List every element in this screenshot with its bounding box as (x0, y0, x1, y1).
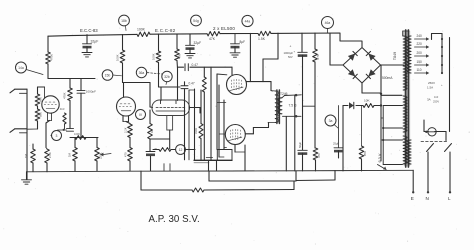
resistor 100K x158 (152, 51, 161, 63)
resistor 10K bias (363, 99, 374, 108)
wire x315 low (315, 160, 317, 171)
callout 44a (242, 15, 253, 26)
chassis mark (378, 165, 387, 170)
resistor splitter tail (159, 148, 171, 152)
ground symbol (22, 172, 32, 184)
svg-text:3: 3 (56, 134, 58, 138)
callout 3a (325, 115, 338, 128)
wire x343 down (342, 106, 344, 171)
svg-text:12: 12 (179, 148, 183, 152)
tube V1 ECC-83 (42, 96, 59, 113)
wire V5 anode (245, 123, 268, 134)
wire x315 mid (314, 62, 316, 148)
label 4b3 (60, 107, 65, 111)
wire x150 to bus (150, 156, 152, 171)
node dot bridge (380, 93, 382, 95)
resistor 47K x177 (175, 49, 182, 61)
wire comb x204 (203, 67, 205, 77)
voltage taps (415, 34, 430, 74)
tube V5 EL500 lower (225, 125, 245, 145)
resistor 470K x70 (63, 88, 73, 101)
resistor 1K x150 (148, 124, 155, 140)
callout 18b (119, 15, 130, 30)
wire feedback (141, 171, 192, 190)
bridge diode SE (366, 69, 375, 78)
capacitor 8uF (231, 34, 246, 49)
wire x81 lower (80, 93, 82, 137)
svg-text:1M: 1M (24, 153, 28, 158)
wire OT sec bot (283, 115, 302, 118)
wire comb x195 (189, 89, 195, 160)
wire V1 plate drop (47, 36, 49, 78)
resistor 100K V2 plate (116, 50, 125, 63)
wire coupling upper (178, 67, 233, 75)
wire V2 drop lower (122, 63, 124, 83)
label ECC-82 (155, 28, 176, 33)
svg-text:E.C.C-83: E.C.C-83 (80, 28, 98, 33)
wire x75 bus (74, 161, 76, 171)
capacitor 25uF bias (333, 142, 343, 153)
svg-text:2 x EL500: 2 x EL500 (213, 26, 235, 31)
wire x158 lower (159, 63, 181, 88)
callout 3 (51, 129, 65, 141)
svg-text:0.47: 0.47 (189, 81, 195, 85)
wire V2 cathode (126, 122, 130, 125)
wire x177 lower (176, 61, 179, 101)
svg-text:47K: 47K (209, 37, 216, 41)
svg-text:220: 220 (417, 42, 423, 46)
wire node x70 (69, 79, 71, 89)
label ECC-83 (80, 28, 98, 33)
svg-text:250V: 250V (433, 100, 439, 104)
svg-text:+: + (441, 83, 443, 87)
wire grid x39 (27, 90, 38, 129)
resistor 68K a (35, 94, 42, 106)
wire ground bus (27, 170, 414, 172)
transformer winding ladder (382, 106, 402, 165)
input jack 2 (10, 129, 27, 133)
resistor 470K V1 plate (46, 52, 54, 64)
capacitor 32uF no2 (186, 41, 202, 50)
svg-text:T849: T849 (393, 52, 397, 60)
tube V1 stem (48, 113, 52, 121)
svg-text:470: 470 (317, 153, 321, 158)
node sec (0, 0, 1, 1)
label 500mA (382, 76, 393, 80)
resistor 470 x130 (123, 148, 132, 162)
svg-text:10K: 10K (364, 99, 370, 103)
svg-text:200: 200 (417, 51, 423, 55)
wire subbus1 (209, 171, 296, 181)
svg-text:54g: 54g (193, 19, 199, 23)
wire x150 grid (150, 83, 153, 108)
svg-text:240: 240 (417, 34, 423, 38)
node dot diode (380, 104, 382, 106)
wire x130 mid (129, 138, 131, 148)
svg-text:2.2K: 2.2K (123, 127, 127, 133)
svg-text:2.2K: 2.2K (48, 152, 52, 158)
wire input shield (26, 89, 28, 179)
callout 46a (322, 17, 334, 33)
svg-text:6.3 V: 6.3 V (378, 153, 382, 162)
transformer OT primary (268, 91, 279, 123)
wire comb x224 (224, 100, 227, 150)
input jack 1 (10, 89, 27, 93)
label T849 (393, 52, 397, 60)
svg-text:100K: 100K (152, 53, 156, 60)
wire x70 lower (69, 101, 71, 129)
fuse (424, 128, 446, 136)
pin tick (206, 157, 212, 159)
resistor x315 upper (313, 49, 320, 62)
callout 54g (191, 15, 202, 26)
node dot (58, 129, 67, 131)
svg-text:50V: 50V (288, 55, 293, 59)
selector rail (432, 34, 444, 75)
capacitor 25uF x150 (146, 147, 157, 156)
wire x302 upper (301, 33, 303, 52)
wire x219 grid rail (219, 85, 225, 157)
svg-text:1K: 1K (150, 129, 154, 133)
svg-text:50µF: 50µF (298, 141, 302, 148)
wire x177 drop (176, 34, 178, 49)
callout 14a (16, 62, 44, 75)
callout 32b (162, 71, 172, 84)
switch blade L (445, 144, 452, 152)
wire 85K bus (361, 159, 363, 171)
svg-text:1.5A: 1.5A (427, 86, 433, 90)
svg-text:36a: 36a (139, 71, 145, 75)
wire V5 below (235, 145, 245, 171)
wire B+ step (263, 33, 278, 81)
wire x75 down (74, 138, 76, 148)
wire bus stubs (164, 164, 170, 171)
capacitor 32uF no1 (83, 40, 99, 49)
wire x150 down (149, 110, 151, 124)
svg-text:1000pF: 1000pF (86, 90, 96, 94)
svg-text:1000µF: 1000µF (284, 51, 294, 55)
wire cap1 lead (86, 35, 88, 44)
wire screen feed (249, 33, 251, 81)
resistor x204 (202, 77, 206, 92)
label 6.3V (378, 153, 382, 162)
transformer OT secondary (278, 98, 282, 114)
wire comb x201 (200, 90, 202, 124)
capacitor 50uF lower (298, 141, 308, 154)
wire strip legs (209, 160, 217, 171)
svg-text:+: + (294, 50, 296, 54)
svg-text:7.5 Ω: 7.5 Ω (289, 104, 297, 108)
wire x302 low (302, 153, 304, 171)
wire comb x217 (217, 74, 227, 150)
label 2xEL500 (213, 26, 235, 31)
wire bridge left (330, 33, 343, 65)
resistor 22K V2 (123, 124, 132, 138)
wire N terminal (427, 152, 429, 194)
svg-text:220K: 220K (99, 152, 103, 159)
wire mains right (449, 38, 451, 132)
wire x150 mid (150, 139, 170, 151)
svg-text:4.7K: 4.7K (316, 54, 320, 60)
wire comb x204 low (203, 92, 205, 160)
label 7.5ohm (289, 104, 297, 108)
capacitor 0.47 lower (181, 81, 195, 88)
wire comb x189 (188, 90, 190, 160)
svg-text:L: L (448, 196, 451, 201)
title text (149, 214, 200, 225)
svg-text:25µF: 25µF (333, 142, 340, 146)
transformer heater winding (408, 140, 411, 164)
wire B+ rail (48, 33, 362, 47)
wire cap2 lead (189, 34, 191, 45)
wire splitter anode1 (160, 87, 162, 101)
resistor 85K (359, 146, 367, 159)
svg-text:470K: 470K (50, 54, 54, 61)
svg-text:100K: 100K (137, 28, 146, 32)
svg-text:14a: 14a (18, 66, 24, 70)
transformer T849 primary winding (407, 36, 411, 73)
svg-text:3A: 3A (427, 98, 431, 102)
resistor 68K b (35, 109, 42, 121)
svg-text:47K: 47K (178, 54, 182, 59)
capacitor x70 (67, 129, 74, 132)
resistor 100K (rail) (137, 28, 150, 37)
resistor 1M x75 (68, 148, 78, 162)
wire V4 anode (247, 82, 273, 91)
wire coupling lower (184, 82, 186, 160)
diode D1 (349, 102, 354, 108)
wire OT sec top (282, 94, 301, 98)
wire fuse leads (424, 120, 446, 141)
wire heater stubs (381, 118, 383, 140)
capacitor 0.47 upper (185, 63, 198, 71)
wire x338 low (338, 151, 340, 159)
wire comb x201 low (200, 139, 202, 160)
svg-text:44a: 44a (245, 19, 251, 23)
wire bridge right (381, 64, 405, 66)
svg-text:110: 110 (417, 68, 422, 72)
wire V3 cathode down (169, 130, 171, 149)
svg-text:0.47: 0.47 (192, 63, 199, 67)
wire x97 down (96, 138, 98, 148)
svg-text:500mA: 500mA (382, 76, 393, 80)
wire L terminal (449, 152, 451, 194)
tube V3 phase splitter (152, 100, 190, 116)
label HT plus (290, 45, 296, 54)
resistor 1M left (24, 149, 35, 163)
label 3A (427, 95, 439, 104)
svg-text:100K: 100K (74, 132, 80, 136)
wire cap2 gnd (189, 48, 191, 53)
callout IV (136, 110, 146, 120)
wire 85K top (361, 106, 363, 147)
wire V1 cathode (46, 121, 50, 148)
wire x158 drop (158, 34, 160, 51)
svg-text:1M: 1M (68, 152, 72, 157)
svg-text:250V: 250V (428, 81, 435, 85)
transformer top lead (403, 31, 409, 36)
wire x302 mid (302, 55, 304, 150)
svg-text:330K: 330K (194, 128, 198, 134)
resistor feedback (192, 188, 204, 192)
svg-text:110: 110 (434, 95, 439, 99)
svg-text:100K: 100K (116, 54, 120, 61)
ground cap2 (185, 54, 195, 58)
wire x381 vertical (380, 65, 382, 161)
callout 15b (102, 70, 121, 81)
connector strip (194, 150, 232, 163)
arrow into 220K (100, 153, 111, 157)
resistor x315 lower (313, 148, 321, 160)
svg-text:E: E (411, 196, 414, 201)
capacitor 1000pF (77, 90, 96, 94)
transformer T849 secondary winding (403, 36, 407, 164)
resistor 2.2K cath (45, 149, 52, 163)
wire bridge bottom (362, 83, 402, 95)
svg-text:470: 470 (123, 152, 127, 157)
wire E terminal (412, 170, 414, 193)
svg-text:32µF: 32µF (91, 40, 99, 44)
wire x130 to bus (129, 161, 131, 171)
wire bias link (303, 105, 315, 107)
svg-text:15b: 15b (105, 73, 111, 77)
label E (411, 196, 414, 201)
transformer OT core (276, 90, 280, 124)
wire V1 anode run (48, 78, 95, 80)
svg-text:N: N (426, 196, 429, 201)
tube V3 stem (167, 116, 173, 131)
svg-text:8µF: 8µF (240, 40, 246, 44)
wire x81 drop (80, 79, 82, 91)
ground cap1 (82, 53, 92, 57)
resistor x201 (194, 124, 203, 139)
wire feedback right (204, 181, 294, 190)
wire cap8 gnd (234, 46, 236, 52)
label L (448, 196, 451, 201)
svg-text:1.5K: 1.5K (258, 37, 266, 41)
wire OT sec vertical (294, 95, 296, 171)
svg-text:A.P. 30 S.V.: A.P. 30 S.V. (149, 214, 200, 225)
wire 2.2K (46, 148, 47, 172)
wire grid to tube (38, 87, 45, 98)
wire x97 bus (96, 161, 98, 171)
resistor 220K x97 (95, 148, 103, 162)
label N (426, 196, 429, 201)
svg-text:68K: 68K (38, 97, 42, 102)
svg-text:32b: 32b (164, 75, 170, 79)
tube V4 EL500 upper (227, 75, 247, 95)
transformer T849 core (404, 30, 410, 167)
label fuse rating (427, 81, 443, 90)
svg-text:150: 150 (417, 60, 423, 64)
wire tail link (153, 149, 176, 151)
svg-text:32µF: 32µF (194, 41, 202, 45)
svg-text:470K: 470K (63, 92, 67, 99)
wire x338 branch (338, 106, 340, 148)
bridge rectifier frame (343, 48, 381, 84)
svg-text:68K: 68K (38, 112, 42, 117)
svg-text:IV: IV (139, 113, 143, 117)
wire subbus1b (296, 171, 335, 181)
svg-text:E.C.C-82: E.C.C-82 (155, 28, 176, 33)
resistor 47K (rail) (207, 32, 220, 41)
wire after 12 (186, 149, 196, 151)
svg-text:18b: 18b (121, 19, 127, 23)
wire V2 drop upper (122, 35, 124, 51)
bridge diode NE (366, 51, 375, 60)
svg-text:46a: 46a (325, 21, 331, 25)
svg-text:3a: 3a (329, 119, 333, 123)
bridge diode SW (348, 69, 357, 78)
wire comb x211 (210, 67, 212, 160)
switch linkage (421, 141, 448, 143)
wire V2 grid run (123, 83, 151, 98)
svg-text:85K: 85K (363, 151, 367, 156)
wire cap1 gnd lead (86, 46, 88, 52)
wire 1M (32, 144, 34, 172)
callout 36a (136, 67, 162, 77)
bridge diode NW (348, 51, 357, 60)
wire V3 right (190, 108, 201, 114)
wire y137 link (70, 137, 98, 139)
svg-text:4b3: 4b3 (60, 107, 65, 111)
capacitor 1000uF upper (284, 51, 308, 59)
resistor cathode V1 (63, 113, 66, 129)
callout 12 (176, 145, 186, 155)
wire OT return (285, 117, 287, 171)
resistor 1.5K (rail) (258, 31, 271, 41)
resistor 100K fb (74, 132, 86, 139)
tube V2 ECC-83 (117, 97, 136, 116)
switch blade N (427, 144, 434, 152)
label T246 (280, 92, 288, 96)
ground cap8 (230, 53, 240, 57)
svg-text:+: + (290, 45, 292, 49)
wire V2 stem (123, 116, 129, 122)
wire x315 upper (314, 33, 316, 49)
wire diode line (343, 105, 381, 107)
